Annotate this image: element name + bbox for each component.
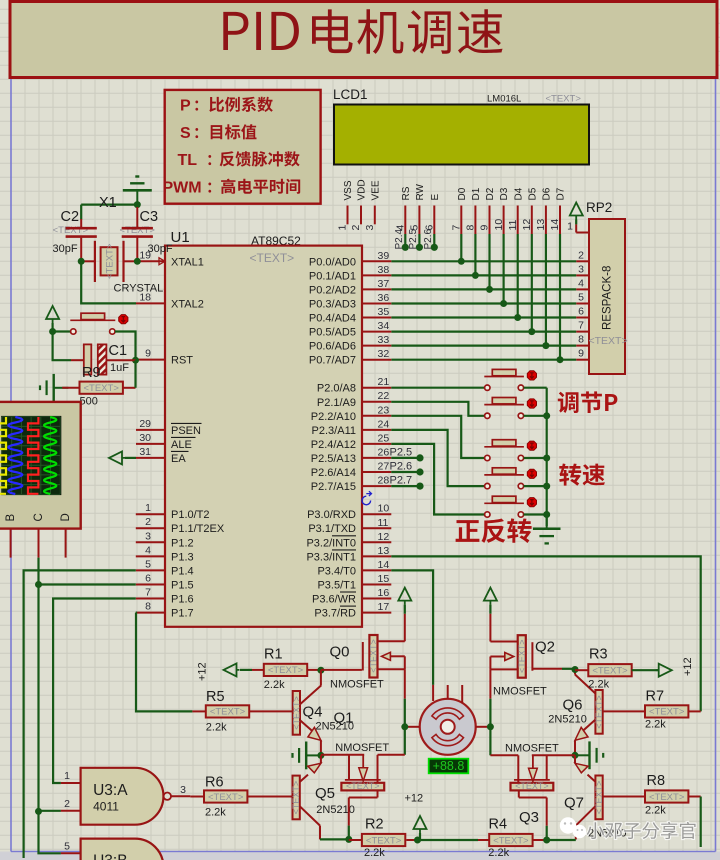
svg-text:CRYSTAL: CRYSTAL — [114, 283, 164, 295]
svg-text:PSEN: PSEN — [171, 425, 201, 437]
svg-text:1uF: 1uF — [110, 362, 129, 374]
svg-text:R7: R7 — [646, 689, 665, 705]
svg-text:D6: D6 — [542, 187, 553, 200]
U1 pin 25 P2.4/A12 — [362, 443, 391, 445]
wire RS to net label — [404, 234, 406, 247]
svg-text:P3.0/RXD: P3.0/RXD — [307, 509, 356, 521]
Q0 source to motor-left — [404, 669, 406, 699]
svg-text:<TEXT>: <TEXT> — [268, 665, 304, 676]
svg-text:U3:B: U3:B — [93, 853, 127, 860]
U1 pin 12 P3.2/INT0 — [362, 541, 391, 543]
svg-text:39: 39 — [378, 250, 390, 262]
net terminal dot P2.7 — [416, 483, 423, 490]
wire P1.6 to U3:A pin1 — [53, 599, 136, 784]
wire button 3 to common — [524, 457, 547, 459]
svg-text:<TEXT>: <TEXT> — [291, 696, 301, 730]
svg-text:9: 9 — [479, 225, 491, 231]
Q3 drain lead — [517, 755, 519, 783]
junction D1/P0.1 — [472, 272, 479, 279]
svg-text:7: 7 — [145, 587, 151, 599]
motor speed display — [429, 759, 469, 774]
svg-text:10: 10 — [378, 503, 390, 515]
Q1 drain lead — [377, 755, 379, 783]
svg-text:R6: R6 — [205, 775, 224, 791]
junction X1 left — [78, 258, 85, 265]
svg-text:13: 13 — [535, 219, 547, 231]
svg-text:D5: D5 — [527, 187, 538, 200]
motor left lead — [405, 726, 420, 728]
svg-text:32: 32 — [378, 348, 390, 360]
svg-text:XTAL1: XTAL1 — [171, 256, 204, 268]
junction D2/P0.2 — [486, 286, 493, 293]
push button 3 — [484, 446, 524, 448]
svg-text:1: 1 — [64, 770, 70, 782]
junction D7/P0.7 — [557, 356, 564, 363]
push button 2 — [484, 404, 524, 406]
scope trace C (red) — [28, 417, 38, 494]
svg-text:+12: +12 — [405, 793, 424, 805]
push button 4 — [484, 474, 524, 476]
Q1 source lead — [377, 790, 379, 797]
wire R9 to RST node — [134, 360, 136, 388]
svg-text:D2: D2 — [485, 187, 496, 200]
svg-text:2N5210: 2N5210 — [548, 714, 587, 726]
svg-text:C3: C3 — [140, 209, 159, 225]
svg-text:C1: C1 — [109, 343, 128, 359]
svg-text:15: 15 — [378, 573, 390, 585]
U1 pin 23 P2.2/A10 — [362, 415, 391, 417]
junction R4/Q3 source — [543, 837, 550, 844]
LCD pin 7 stub — [460, 206, 462, 235]
svg-text:2.2k: 2.2k — [364, 847, 385, 859]
wire P3.4 to motor — [391, 570, 433, 685]
svg-text:2: 2 — [145, 516, 151, 528]
junction Q6/Q7 node — [572, 752, 579, 759]
motor right lead — [476, 726, 491, 728]
LCD pin 13 stub — [545, 206, 547, 235]
svg-text:+12: +12 — [197, 662, 209, 681]
U1 pin 10 P3.0/RXD — [362, 513, 391, 515]
LCD pin 3 stub — [374, 206, 376, 225]
wire LCD D4 to P0.4 row — [517, 234, 519, 318]
push button 5 — [484, 502, 524, 504]
svg-text:4011: 4011 — [93, 799, 119, 813]
svg-text:10: 10 — [493, 219, 505, 231]
svg-text:14: 14 — [378, 559, 390, 571]
NMOSFET Q2 — [518, 635, 526, 678]
label 调节P — [558, 391, 618, 413]
U1 pin 35 P0.4/AD4 — [362, 317, 391, 319]
junction D5/P0.5 — [528, 328, 535, 335]
reset button — [70, 319, 115, 321]
wire RW to net label — [418, 234, 420, 247]
wire LCD D5 to P0.5 row — [531, 234, 533, 332]
label 正反转 — [456, 518, 532, 543]
svg-text:7: 7 — [451, 225, 463, 231]
svg-text:P1.1/T2EX: P1.1/T2EX — [171, 523, 225, 535]
title text PID电机调速 — [223, 9, 502, 54]
svg-text:NMOSFET: NMOSFET — [335, 742, 389, 754]
svg-text:9: 9 — [145, 348, 151, 360]
svg-text:P3.2/INT0: P3.2/INT0 — [306, 537, 356, 549]
resistor R6 — [190, 796, 204, 798]
junction motor left — [401, 723, 408, 730]
svg-text:XTAL2: XTAL2 — [171, 298, 204, 310]
svg-text:26: 26 — [378, 446, 390, 458]
svg-text:P2.6: P2.6 — [390, 461, 413, 473]
wire button 1 to common — [524, 387, 547, 389]
svg-text:3: 3 — [578, 263, 584, 275]
wire LCD D6 to P0.6 row — [545, 234, 547, 346]
svg-text:S: S — [180, 125, 191, 142]
svg-text:<TEXT>: <TEXT> — [210, 707, 246, 718]
resistor R7 — [603, 710, 645, 712]
LCD pin 2 stub — [360, 206, 362, 225]
LCD pin 5 stub — [418, 206, 420, 235]
label 转速 — [559, 464, 605, 486]
junction P1.5/scope — [35, 581, 42, 588]
svg-text:P0.2/AD2: P0.2/AD2 — [309, 284, 356, 296]
svg-text:RW: RW — [415, 183, 426, 200]
net label terminal dot — [402, 244, 409, 251]
svg-text:+88.8: +88.8 — [433, 759, 465, 773]
svg-text:<TEXT>: <TEXT> — [515, 781, 549, 791]
capacitor C1 lead right — [106, 359, 135, 361]
resistor R2 — [349, 839, 362, 841]
svg-text:VEE: VEE — [370, 180, 381, 200]
svg-text:<TEXT>: <TEXT> — [517, 639, 527, 673]
U1 pin 16 P3.6/WR — [362, 598, 391, 600]
U1 pin 3 P1.2 — [136, 541, 165, 543]
svg-text:3: 3 — [364, 225, 376, 231]
button common rail — [546, 388, 548, 515]
Q1 gate lead — [321, 754, 364, 756]
svg-text:13: 13 — [378, 545, 390, 557]
svg-text:2.2k: 2.2k — [645, 805, 666, 817]
wire XTAL2 — [81, 261, 136, 303]
svg-text:P2.4/A12: P2.4/A12 — [311, 439, 356, 451]
wire to U3:A pin2 — [39, 810, 61, 812]
junction R2/arrow — [414, 837, 421, 844]
U1 pin 8 P1.7 — [136, 612, 165, 614]
svg-text:P2.0/A8: P2.0/A8 — [317, 383, 356, 395]
svg-text:D1: D1 — [471, 187, 482, 200]
U1 pin 18 XTAL2 — [136, 302, 165, 304]
Q3 body-diode arrow — [532, 755, 534, 768]
wire P2.3 to button4 — [391, 430, 484, 486]
scope pin B — [10, 529, 12, 558]
svg-text:<TEXT>: <TEXT> — [369, 639, 379, 673]
Q6 collector — [575, 675, 595, 694]
U1 pin 14 P3.4/T0 — [362, 569, 391, 571]
svg-text:5: 5 — [64, 840, 70, 852]
svg-text:1: 1 — [145, 502, 151, 514]
svg-text:P: P — [180, 98, 191, 115]
svg-text:<TEXT>: <TEXT> — [592, 666, 628, 677]
svg-text:P0.3/AD3: P0.3/AD3 — [309, 299, 356, 311]
svg-text:P2.4: P2.4 — [394, 228, 405, 249]
svg-text:D: D — [60, 513, 72, 521]
svg-text:EA: EA — [171, 453, 186, 465]
Q2 drain rail +12 — [484, 588, 497, 605]
capacitor C1 lead left — [71, 359, 84, 361]
Q4 emitter — [300, 720, 312, 731]
svg-text:8: 8 — [145, 601, 151, 613]
junction motor right — [487, 723, 494, 730]
junction RST node — [132, 357, 139, 364]
LCD pin 1 stub — [347, 206, 349, 225]
svg-text:P3.3/INT1: P3.3/INT1 — [306, 551, 356, 563]
junction C3 top — [134, 201, 141, 208]
U1 pin 1 P1.0/T2 — [136, 513, 165, 515]
capacitor C3 — [136, 207, 138, 227]
svg-text:LCD1: LCD1 — [333, 87, 368, 102]
svg-text:30pF: 30pF — [148, 243, 173, 255]
resistor R3 — [575, 669, 588, 671]
LCD pin 14 stub — [559, 206, 561, 235]
svg-text:11: 11 — [507, 219, 519, 230]
scope pin D — [65, 529, 67, 558]
svg-text:LM016L: LM016L — [487, 94, 521, 105]
U1 pin 38 P0.1/AD1 — [362, 274, 391, 276]
svg-text:7: 7 — [578, 320, 584, 332]
svg-text:P0.5/AD5: P0.5/AD5 — [309, 327, 356, 339]
svg-text:RP2: RP2 — [586, 200, 612, 215]
wire button 5 to common — [524, 513, 547, 515]
wire vcc to button — [51, 323, 53, 332]
wire R2 to R4 — [418, 839, 479, 841]
svg-text:<TEXT>: <TEXT> — [649, 792, 685, 803]
U1 pin 5 P1.4 — [136, 569, 165, 571]
U1 pin 9 RST — [136, 359, 166, 361]
svg-text:500: 500 — [80, 396, 98, 408]
junction Q2-gate/R3 — [572, 666, 579, 673]
U1 pin 22 P2.1/A9 — [362, 401, 391, 403]
U1 pin 37 P0.2/AD2 — [362, 288, 391, 290]
RP2 pin1 power arrow +5V — [570, 203, 583, 220]
wire pin 27 stub — [391, 471, 417, 473]
svg-text:P2.5/A13: P2.5/A13 — [311, 453, 356, 465]
junction Q5/Q1-source — [345, 836, 352, 843]
svg-text:X1: X1 — [99, 195, 117, 211]
svg-text:B: B — [5, 514, 17, 522]
svg-text:RESPACK-8: RESPACK-8 — [602, 266, 614, 330]
svg-text:2.2k: 2.2k — [205, 807, 226, 819]
svg-text:6: 6 — [145, 573, 151, 585]
svg-text:RS: RS — [401, 186, 412, 200]
U1 pin 27 P2.6/A14 — [362, 471, 391, 473]
U1 pin 33 P0.6/AD6 — [362, 345, 391, 347]
svg-text:<TEXT>: <TEXT> — [493, 835, 529, 846]
transistor Q4 body — [293, 691, 300, 735]
RP2 pin1 wire — [575, 220, 577, 225]
svg-text:38: 38 — [378, 264, 390, 276]
svg-text:P2.2/A10: P2.2/A10 — [311, 411, 356, 423]
power arrow R2 (+12) — [414, 816, 427, 833]
U1 pin 15 P3.5/T1 — [362, 584, 391, 586]
net terminal dot P2.6 — [416, 468, 423, 475]
ground (R9) — [54, 387, 69, 389]
Q3 gate lead — [532, 754, 575, 756]
U1 pin 19 XTAL1 — [137, 260, 165, 262]
wire P0.0 row — [391, 260, 576, 262]
ground (buttons) — [546, 515, 548, 529]
svg-text:R3: R3 — [589, 647, 608, 663]
wire P2.2 to button3 — [391, 416, 484, 458]
svg-text:R8: R8 — [647, 773, 666, 789]
svg-text:E: E — [430, 194, 441, 201]
transistor Q6 body — [595, 690, 602, 734]
svg-text:2.2k: 2.2k — [588, 679, 609, 691]
LCD pin 4 stub — [404, 206, 406, 235]
wire button 4 to common — [524, 485, 547, 487]
svg-text:27: 27 — [378, 461, 390, 473]
svg-text:30pF: 30pF — [53, 243, 78, 255]
NMOSFET Q3 body — [511, 783, 554, 791]
wire P2.4 to button5 — [391, 444, 484, 515]
junction button rail — [543, 412, 550, 419]
svg-text:U3:A: U3:A — [93, 782, 128, 799]
junction D4/P0.4 — [514, 314, 521, 321]
svg-text:<TEXT>: <TEXT> — [84, 383, 120, 394]
transistor Q5 body — [293, 776, 300, 820]
junction D6/P0.6 — [542, 342, 549, 349]
wire LCD D0 to P0.0 row — [460, 234, 462, 261]
resistor R1 — [240, 669, 252, 671]
svg-text:1: 1 — [337, 225, 349, 231]
oscilloscope body — [0, 402, 81, 529]
svg-text:C: C — [33, 513, 45, 521]
svg-text:2.2k: 2.2k — [645, 719, 666, 731]
wire P0.1 row — [391, 274, 576, 276]
junction button rail — [543, 455, 550, 462]
RP2 pin 6 stub — [576, 317, 589, 319]
wire P0.5 row — [391, 331, 576, 333]
EA input arrow — [109, 451, 125, 464]
svg-text:<TEXT>: <TEXT> — [291, 781, 301, 815]
wire P0.3 row — [391, 302, 576, 304]
wire E to net label — [433, 234, 435, 247]
svg-text:P2.6/A14: P2.6/A14 — [311, 467, 356, 479]
junction Q4/Q5/Q1-gate — [317, 752, 324, 759]
svg-text:9: 9 — [578, 348, 584, 360]
svg-text:P3.4/T0: P3.4/T0 — [317, 565, 356, 577]
U1 pin 34 P0.5/AD5 — [362, 331, 391, 333]
svg-text:NMOSFET: NMOSFET — [505, 743, 559, 755]
U1 pin 39 P0.0/AD0 — [362, 260, 391, 262]
svg-text:P0.1/AD1: P0.1/AD1 — [309, 270, 356, 282]
RP2 pin 5 stub — [576, 303, 589, 305]
junction X1 right — [134, 258, 141, 265]
svg-text:P1.0/T2: P1.0/T2 — [171, 509, 210, 521]
svg-text:1: 1 — [567, 221, 573, 233]
svg-text:P0.4/AD4: P0.4/AD4 — [309, 313, 356, 325]
Q0 drain rail +12 — [398, 588, 411, 605]
svg-text:P3.7/RD: P3.7/RD — [314, 608, 356, 620]
svg-text:2: 2 — [64, 798, 70, 810]
svg-text:Q1: Q1 — [334, 710, 354, 727]
NMOSFET Q1 body — [341, 783, 384, 791]
svg-text:D0: D0 — [457, 187, 468, 200]
svg-text:Q3: Q3 — [519, 809, 539, 826]
svg-text:+12: +12 — [682, 657, 694, 676]
svg-text:NMOSFET: NMOSFET — [330, 679, 384, 691]
U1 pin 11 P3.1/TXD — [362, 527, 391, 529]
ground (Q6 node) — [575, 754, 590, 756]
ground (crystal top) — [136, 190, 138, 204]
ground (Q4 node) — [306, 754, 321, 756]
svg-text:8: 8 — [578, 334, 584, 346]
svg-text:U1: U1 — [171, 229, 190, 246]
svg-text:11: 11 — [378, 517, 389, 529]
capacitor C2 — [80, 219, 82, 227]
svg-text:R4: R4 — [489, 817, 508, 833]
svg-text:<TEXT>: <TEXT> — [346, 781, 380, 791]
junction R1/Q0 gate — [317, 667, 324, 674]
svg-text:<TEXT>: <TEXT> — [250, 251, 295, 265]
Q6 emitter — [584, 720, 596, 731]
Q3 source lead — [518, 791, 520, 798]
svg-text:P1.2: P1.2 — [171, 537, 194, 549]
svg-text:Q5: Q5 — [315, 785, 335, 802]
svg-text:D4: D4 — [513, 187, 524, 200]
LCD pin 11 stub — [517, 206, 519, 235]
svg-text:P3.1/TXD: P3.1/TXD — [308, 523, 356, 535]
RP2 pin 7 stub — [576, 331, 589, 333]
net label terminal dot — [431, 244, 438, 251]
wire R4 to Q7 collector — [547, 839, 576, 841]
svg-text:34: 34 — [378, 320, 390, 332]
wire P0.7 row — [391, 359, 576, 361]
svg-text:30: 30 — [139, 432, 151, 444]
motor top pins — [447, 685, 449, 699]
svg-text:PWM: PWM — [163, 180, 202, 197]
wire R1 to Q0 gate — [321, 669, 362, 671]
svg-text:P2.3/A11: P2.3/A11 — [312, 425, 356, 437]
net label terminal dot — [416, 244, 423, 251]
svg-text:P2.7: P2.7 — [390, 475, 413, 487]
wire gnd to C2 top — [81, 204, 137, 206]
U1 pin 32 P0.7/AD7 — [362, 359, 391, 361]
svg-text:31: 31 — [139, 446, 151, 458]
svg-text:P3.5/T1: P3.5/T1 — [317, 580, 356, 592]
svg-text:TL: TL — [178, 152, 198, 169]
svg-text:<TEXT>: <TEXT> — [104, 243, 115, 279]
svg-text:P0.6/AD6: P0.6/AD6 — [309, 341, 356, 353]
svg-text:R2: R2 — [365, 817, 384, 833]
LCD pin 8 stub — [474, 206, 476, 235]
wire R8 down right edge — [700, 797, 702, 848]
svg-text:Q7: Q7 — [564, 795, 584, 812]
RP2 pin 4 stub — [576, 288, 589, 290]
svg-text:P0.7/AD7: P0.7/AD7 — [309, 355, 356, 367]
U1 pin 30 ALE — [136, 443, 165, 445]
svg-text:<TEXT>: <TEXT> — [594, 781, 604, 815]
svg-text:2.2k: 2.2k — [206, 722, 227, 734]
Q4 collector — [300, 685, 321, 704]
svg-text:35: 35 — [378, 306, 390, 318]
svg-text:Q2: Q2 — [535, 639, 555, 656]
wire P0.2 row — [391, 288, 576, 290]
oscilloscope screen — [2, 417, 61, 495]
svg-text:<TEXT>: <TEXT> — [366, 835, 402, 846]
svg-text:P0.0/AD0: P0.0/AD0 — [309, 256, 356, 268]
svg-text:R1: R1 — [264, 647, 283, 663]
wire P0.4 row — [391, 316, 576, 318]
svg-text:P1.7: P1.7 — [171, 608, 194, 620]
wire P2.1 to button2 — [391, 402, 484, 416]
svg-text:<TEXT>: <TEXT> — [208, 792, 244, 803]
